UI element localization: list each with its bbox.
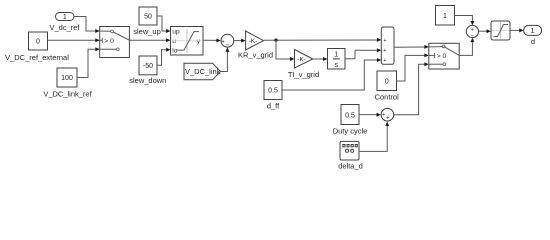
svg-text:1: 1 [531,28,535,35]
svg-text:V_dc_ref: V_dc_ref [49,23,80,32]
svg-text:up: up [172,29,180,36]
svg-text:+: + [383,58,386,64]
svg-text:0: 0 [36,39,40,46]
svg-text:1: 1 [443,13,447,20]
svg-text:KR_v_grid: KR_v_grid [238,51,273,60]
svg-text:V_DC_link_ref: V_DC_link_ref [43,89,92,98]
svg-text:s: s [335,62,339,69]
svg-text:slew_up: slew_up [133,27,161,36]
svg-text:> 0: > 0 [104,38,114,45]
svg-text:Duty cycle: Duty cycle [333,127,368,136]
svg-text:> 0: > 0 [437,53,447,60]
svg-text:slew_down: slew_down [129,76,166,85]
svg-text:+: + [221,39,225,46]
svg-text:+: + [383,38,386,44]
svg-text:100: 100 [61,75,73,82]
svg-text:TI_v_grid: TI_v_grid [288,70,319,79]
svg-text:V_DC_ref_external: V_DC_ref_external [5,53,69,62]
svg-text:1: 1 [334,52,338,59]
svg-text:50: 50 [144,14,152,21]
svg-text:V_DC_link: V_DC_link [185,67,221,76]
svg-text:-K-: -K- [297,56,306,63]
svg-text:−: − [226,42,230,49]
svg-text:u: u [172,38,176,45]
svg-text:Control: Control [375,93,400,102]
svg-text:delta_d: delta_d [338,162,363,171]
svg-text:lo: lo [172,47,177,54]
svg-text:0.5: 0.5 [345,113,355,120]
svg-text:-50: -50 [143,63,153,70]
svg-text:d: d [531,37,535,46]
svg-text:d_ff: d_ff [267,102,280,111]
svg-text:1: 1 [63,14,67,21]
svg-text:-K-: -K- [249,38,258,45]
svg-text:+: + [383,48,386,54]
svg-text:0.5: 0.5 [268,88,278,95]
svg-text:0: 0 [385,79,389,86]
